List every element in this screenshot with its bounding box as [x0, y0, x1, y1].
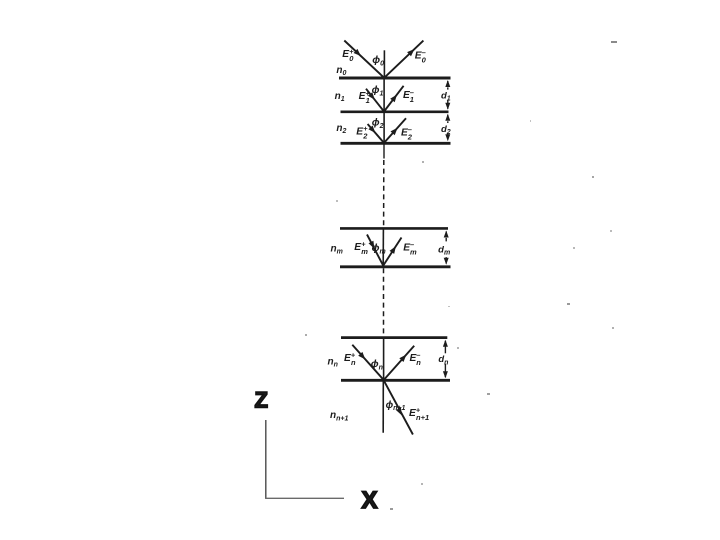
- normal line in layer m: [382, 228, 384, 266]
- dimension d2 (thickness of layer 2): [441, 114, 453, 142]
- label E2-: [401, 125, 413, 141]
- axis Z vertical line: [265, 420, 267, 499]
- label E0-: [415, 48, 427, 64]
- label nm: [331, 243, 343, 255]
- svg-text:E+1: E+1: [359, 89, 371, 105]
- svg-text:X: X: [362, 487, 378, 514]
- svg-text:E+0: E+0: [342, 47, 354, 63]
- axis X horizontal line: [265, 497, 344, 499]
- svg-text:E+n: E+n: [344, 351, 356, 367]
- label E0+: [342, 47, 354, 63]
- label Em+: [354, 240, 368, 256]
- interface 0 (top boundary n0/n1): [339, 77, 451, 80]
- svg-text:E+m: E+m: [354, 240, 368, 256]
- label phin+1 refraction angle: [386, 400, 406, 412]
- dimension dm (thickness of layer m): [438, 231, 451, 265]
- label phi0 angle of incidence: [372, 55, 384, 67]
- interface m top (upper boundary of layer m): [340, 227, 448, 230]
- svg-text:ϕ1: ϕ1: [372, 85, 384, 97]
- label n1: [335, 91, 345, 103]
- normal line below interface n into substrate: [382, 380, 384, 432]
- normal line below interface 2, solid then dashed: [383, 143, 385, 227]
- label En-: [410, 351, 422, 367]
- ray En+ in layer n: [352, 345, 383, 380]
- ray E0+ incident wave: [344, 41, 384, 78]
- label nn: [328, 357, 338, 369]
- interface n bottom (boundary n_n / n_n+1): [341, 379, 450, 382]
- scan speckle marks: [305, 41, 617, 510]
- ray E0- reflected wave: [384, 41, 423, 78]
- axis Z label: [255, 388, 268, 413]
- svg-text:ϕn: ϕn: [371, 359, 383, 371]
- svg-text:nn: nn: [328, 357, 338, 369]
- ray E1+ in layer 1: [366, 89, 384, 112]
- svg-text:n0: n0: [336, 65, 346, 77]
- svg-text:n2: n2: [336, 123, 346, 135]
- svg-text:E+n+1: E+n+1: [409, 406, 429, 422]
- interface m bottom (lower boundary of layer m): [340, 265, 451, 268]
- label n0 (incident medium): [336, 65, 346, 77]
- normal line in layer n1: [383, 78, 385, 112]
- normal line above interface 0: [383, 50, 385, 78]
- svg-text:Z: Z: [255, 388, 268, 413]
- ray Em- in layer m: [383, 238, 401, 266]
- label phi2: [372, 118, 384, 130]
- svg-text:E–m: E–m: [403, 240, 417, 256]
- svg-text:E–2: E–2: [401, 125, 413, 141]
- ray En- in layer n: [384, 346, 415, 380]
- dimension dn (thickness of layer n): [438, 340, 450, 379]
- interface 1 (boundary n1/n2): [341, 111, 449, 114]
- svg-text:n1: n1: [335, 91, 345, 103]
- label E1+: [359, 89, 371, 105]
- svg-text:ϕ2: ϕ2: [372, 118, 384, 130]
- label n2: [336, 123, 346, 135]
- interface n top (upper boundary of layer n): [341, 336, 447, 339]
- label E1-: [403, 88, 414, 104]
- dimension d1 (thickness of layer 1): [441, 80, 453, 110]
- svg-text:nm: nm: [331, 243, 343, 255]
- ray Em+ in layer m: [367, 235, 383, 266]
- svg-text:E–0: E–0: [415, 48, 427, 64]
- normal line in layer n: [383, 338, 385, 381]
- normal line in layer n2: [383, 112, 385, 144]
- svg-text:E–n: E–n: [410, 351, 422, 367]
- interface 2 (boundary below n2): [341, 142, 451, 145]
- label phi1: [372, 85, 384, 97]
- svg-text:ϕ0: ϕ0: [372, 55, 384, 67]
- label Em-: [403, 240, 417, 256]
- svg-text:E+2: E+2: [356, 124, 368, 140]
- ray E1- in layer 1: [384, 86, 404, 112]
- label E2+: [356, 124, 368, 140]
- ray E2+ in layer 2: [368, 124, 384, 143]
- label phim: [372, 243, 386, 255]
- label nn+1 (substrate): [330, 410, 348, 422]
- ray E2- in layer 2: [384, 118, 406, 143]
- svg-text:nn+1: nn+1: [330, 410, 348, 422]
- label En+: [344, 351, 356, 367]
- label phin: [371, 359, 383, 371]
- label En+1+ transmitted: [409, 406, 429, 422]
- svg-text:E–1: E–1: [403, 88, 414, 104]
- axis X label: [362, 487, 378, 514]
- ray En+1+ transmitted wave: [384, 380, 413, 434]
- dashed normal line between layer m and layer n: [383, 268, 385, 336]
